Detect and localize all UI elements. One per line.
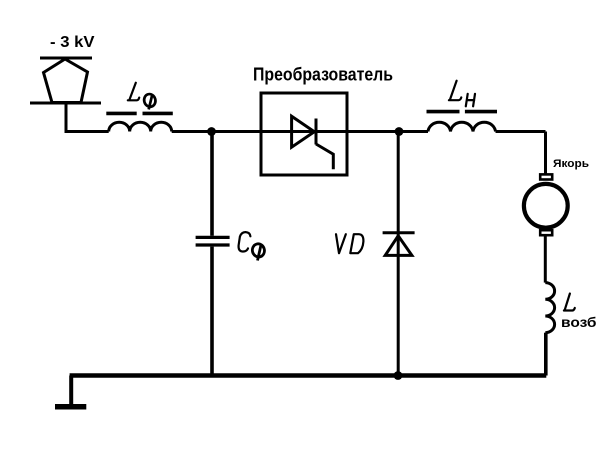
- svg-text:- 3 kV: - 3 kV: [50, 34, 95, 51]
- svg-text:возб: возб: [561, 314, 597, 330]
- svg-text:Якорь: Якорь: [553, 158, 589, 170]
- svg-text:Преобразователь: Преобразователь: [253, 65, 393, 85]
